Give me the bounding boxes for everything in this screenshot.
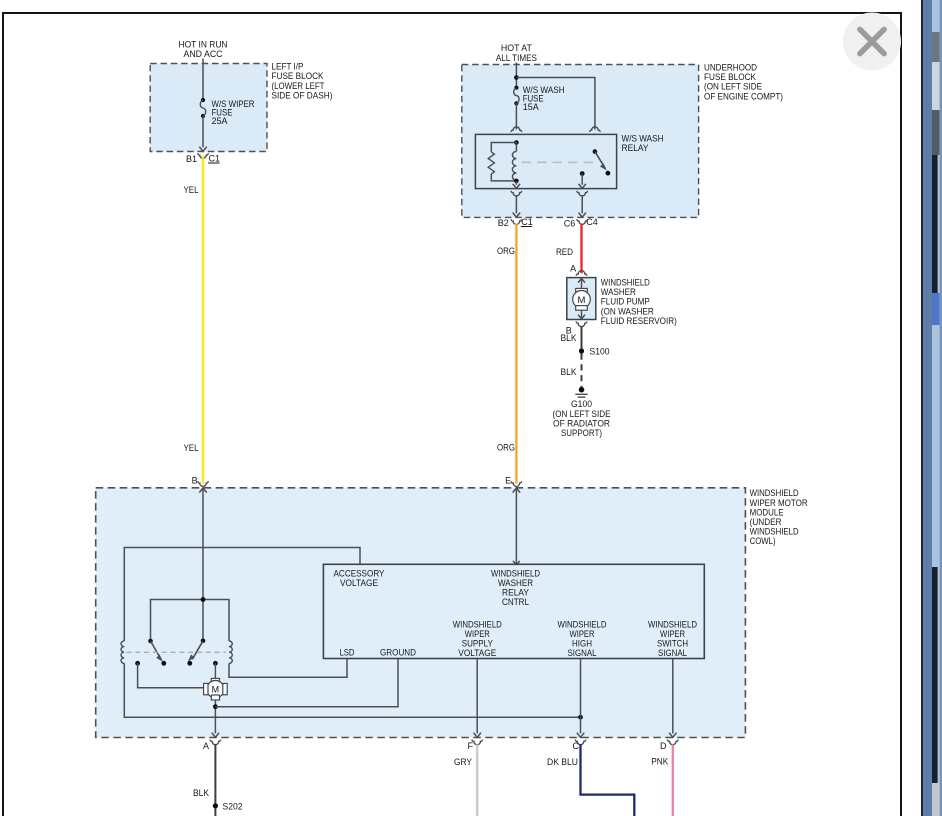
- connector cup module B: [198, 481, 208, 486]
- page sliver right edge: [921, 0, 942, 816]
- label UNDERHOOD FUSE BLOCK: [704, 63, 783, 102]
- wire high signal pin C: [580, 659, 582, 733]
- connector cup C1 left block: [198, 153, 208, 158]
- label GRY: [454, 757, 472, 767]
- arrow washer relay cntrl pin: [513, 561, 520, 565]
- pin B washer pump: [566, 325, 572, 335]
- svg-text:FLUID PUMP: FLUID PUMP: [601, 297, 650, 307]
- label WINDSHIELD WIPER HIGH SIGNAL: [558, 619, 607, 658]
- connector cup pump exit: [576, 321, 586, 326]
- svg-text:(ON LEFT SIDE: (ON LEFT SIDE: [553, 409, 611, 419]
- svg-text:RED: RED: [556, 247, 573, 257]
- connector cup C: [575, 740, 585, 745]
- svg-text:D: D: [660, 741, 667, 751]
- motor winding right coil: [229, 641, 232, 663]
- fuse block box UNDERHOOD: [462, 65, 699, 218]
- svg-text:BLK: BLK: [193, 788, 209, 798]
- svg-text:W/S WASH: W/S WASH: [622, 134, 664, 144]
- svg-text:WINDSHIELD: WINDSHIELD: [453, 619, 502, 629]
- svg-text:(UNDER: (UNDER: [750, 517, 782, 527]
- label DK BLU: [547, 757, 578, 767]
- svg-text:VOLTAGE: VOLTAGE: [458, 648, 496, 658]
- arrow into pump: [578, 278, 585, 282]
- pin A washer pump: [570, 263, 576, 273]
- svg-text:WASHER: WASHER: [498, 578, 533, 588]
- pin E module: [505, 476, 511, 486]
- wire relay coil pin to block edge: [515, 195, 517, 213]
- svg-text:A: A: [570, 263, 576, 273]
- wire E to washer relay cntrl pin: [515, 489, 517, 565]
- relay actuation dashed link: [522, 161, 597, 163]
- label WINDSHIELD WIPER SWITCH SIGNAL: [648, 619, 697, 658]
- arrow module exit F: [474, 733, 481, 738]
- label S100: [590, 347, 610, 357]
- arrow out of left fuse block: [199, 147, 206, 152]
- wire resistor bottom: [491, 174, 516, 181]
- pin B module: [192, 476, 198, 486]
- svg-text:WINDSHIELD: WINDSHIELD: [750, 488, 799, 498]
- arrow B2 exit: [513, 213, 520, 218]
- connector cup below relay switch: [577, 191, 587, 196]
- label W/S WASH RELAY: [622, 134, 664, 154]
- wire B to park switch: [202, 489, 204, 641]
- svg-text:SIGNAL: SIGNAL: [658, 648, 687, 658]
- svg-text:GROUND: GROUND: [380, 647, 416, 657]
- junction dot relay coil top: [514, 140, 519, 145]
- label YEL: [184, 185, 199, 195]
- wire YEL yellow: [202, 155, 204, 483]
- park switch contact dot: [135, 661, 140, 666]
- resistor relay suppression: [488, 152, 494, 174]
- pin F: [468, 741, 474, 751]
- relay switch arm end dot: [606, 171, 611, 176]
- wire accessory voltage to motor winding: [124, 548, 360, 642]
- svg-text:ORG: ORG: [497, 246, 515, 256]
- wire relay coil to box edge: [515, 181, 517, 185]
- svg-text:PNK: PNK: [651, 757, 668, 767]
- label WINDSHIELD WASHER RELAY CNTRL: [491, 568, 540, 607]
- arrow module exit C: [577, 733, 584, 738]
- svg-text:S202: S202: [223, 801, 243, 811]
- module box WINDSHIELD WIPER MOTOR MODULE: [96, 488, 746, 738]
- ground G100: [575, 387, 587, 397]
- svg-text:MODULE: MODULE: [750, 507, 784, 517]
- wire BLK dashed S100 to G100: [581, 354, 583, 388]
- wire fuse to connector C1: [202, 116, 204, 147]
- label S202: [223, 801, 243, 811]
- svg-text:OF RADIATOR: OF RADIATOR: [553, 418, 610, 428]
- label ORG: [497, 246, 515, 256]
- connector cup relay coil entry: [511, 127, 521, 132]
- arrow into module B: [199, 488, 206, 493]
- label BLK: [561, 333, 577, 343]
- motor M wiper: [204, 678, 228, 700]
- label BLK 3: [193, 788, 209, 798]
- svg-text:B: B: [192, 476, 198, 486]
- arrow pump exit: [578, 315, 585, 319]
- junction dot high signal: [578, 715, 583, 720]
- label ORG 2: [497, 443, 515, 453]
- relay coil winding: [512, 143, 516, 181]
- svg-text:BLK: BLK: [561, 333, 577, 343]
- washer pump box: [567, 278, 596, 320]
- arrow relay output exit: [579, 184, 586, 189]
- svg-text:VOLTAGE: VOLTAGE: [340, 578, 378, 588]
- wire relay switch pin to block edge: [581, 195, 583, 213]
- connector cup C6-C4: [577, 219, 587, 224]
- relay box W/S WASH RELAY: [475, 134, 616, 188]
- pin C4: [586, 217, 598, 227]
- svg-text:LEFT I/P: LEFT I/P: [272, 62, 304, 72]
- pin B1: [186, 154, 197, 164]
- wire coil top to resistor: [491, 143, 516, 152]
- svg-text:WASHER: WASHER: [601, 287, 636, 297]
- fuse W/S WASH 15A: [514, 86, 519, 106]
- svg-text:WINDSHIELD: WINDSHIELD: [558, 619, 607, 629]
- park switch arm 2 end dot: [187, 661, 192, 666]
- svg-text:WINDSHIELD: WINDSHIELD: [648, 619, 697, 629]
- park switch arm 2 pivot dot: [201, 639, 206, 644]
- svg-text:GRY: GRY: [454, 757, 472, 767]
- svg-text:M: M: [212, 685, 220, 695]
- park switch arm 1 pivot dot: [148, 639, 153, 644]
- wire DK BLU navy: [581, 744, 635, 816]
- svg-text:SUPPLY: SUPPLY: [462, 639, 493, 649]
- svg-text:YEL: YEL: [184, 443, 199, 453]
- wire switch signal pin D: [672, 659, 674, 733]
- wire feed to motor: [214, 663, 216, 678]
- svg-text:A: A: [203, 741, 209, 751]
- svg-text:UNDERHOOD: UNDERHOOD: [704, 63, 757, 73]
- relay switch pivot dot: [593, 149, 598, 154]
- svg-text:15A: 15A: [523, 102, 539, 112]
- svg-text:(LOWER LEFT: (LOWER LEFT: [272, 81, 325, 91]
- junction dot B at bridge: [201, 597, 206, 602]
- label WINDSHIELD WIPER MOTOR MODULE: [750, 488, 808, 546]
- arrow C6 exit: [579, 213, 586, 218]
- label WINDSHIELD WIPER SUPPLY VOLTAGE: [453, 619, 502, 658]
- svg-text:25A: 25A: [212, 116, 228, 126]
- connector cup module E: [511, 481, 521, 486]
- wire hot feed into left fuse block: [202, 59, 204, 101]
- wire BLK to S202: [214, 744, 216, 816]
- svg-text:RELAY: RELAY: [502, 588, 529, 598]
- label LEFT I/P FUSE BLOCK: [272, 62, 333, 101]
- svg-text:FUSE BLOCK: FUSE BLOCK: [704, 72, 756, 82]
- svg-text:COWL): COWL): [750, 536, 776, 546]
- junction dot feed split: [514, 75, 519, 80]
- svg-text:C4: C4: [586, 217, 598, 227]
- wire branch to relay switch: [516, 78, 595, 130]
- arrow module exit D: [669, 733, 676, 738]
- park switch arm 2: [189, 641, 203, 661]
- label YEL 2: [184, 443, 199, 453]
- motor M washer pump: [573, 288, 591, 310]
- pin B2: [498, 218, 509, 228]
- label W/S WIPER FUSE 25A: [212, 99, 255, 126]
- svg-text:WINDSHIELD: WINDSHIELD: [601, 277, 650, 287]
- svg-text:ACCESSORY: ACCESSORY: [334, 568, 385, 578]
- svg-text:(ON LEFT SIDE: (ON LEFT SIDE: [704, 82, 762, 92]
- pin A: [203, 741, 209, 751]
- svg-text:B2: B2: [498, 218, 509, 228]
- wire BLK pump to S100: [581, 326, 583, 351]
- svg-text:F: F: [468, 741, 474, 751]
- label GROUND: [380, 647, 416, 657]
- svg-text:FLUID RESERVOIR): FLUID RESERVOIR): [601, 316, 677, 326]
- wire left coil to high signal junction: [124, 663, 580, 717]
- svg-text:B1: B1: [186, 154, 197, 164]
- svg-text:HIGH: HIGH: [572, 639, 592, 649]
- arrow into relay switch pin: [591, 135, 598, 140]
- module control box: [323, 564, 704, 658]
- junction dot motor ground: [213, 704, 218, 709]
- park switch arm 1 end dot: [161, 661, 166, 666]
- connector cup relay switch entry: [590, 127, 600, 132]
- fuse block box LEFT I/P: [150, 64, 267, 152]
- label WINDSHIELD WASHER FLUID PUMP: [601, 277, 677, 326]
- label W/S WASH FUSE 15A: [523, 85, 565, 112]
- svg-text:DK BLU: DK BLU: [547, 757, 578, 767]
- wire park switch bridge: [151, 600, 230, 642]
- svg-text:LSD: LSD: [340, 647, 355, 657]
- svg-text:OF ENGINE COMPT): OF ENGINE COMPT): [704, 91, 783, 101]
- wire PNK pink: [672, 744, 674, 816]
- wire motor to ground junction: [214, 700, 216, 733]
- splice S100: [579, 348, 584, 353]
- label LSD: [340, 647, 355, 657]
- svg-text:SUPPORT): SUPPORT): [561, 428, 602, 438]
- close button: [843, 13, 901, 71]
- connector cup D: [668, 740, 678, 745]
- wire RED red: [580, 224, 582, 274]
- svg-text:WIPER MOTOR: WIPER MOTOR: [750, 498, 808, 508]
- svg-text:M: M: [578, 295, 586, 306]
- svg-text:SIGNAL: SIGNAL: [568, 648, 597, 658]
- pin C6: [564, 219, 576, 229]
- svg-text:WINDSHIELD: WINDSHIELD: [491, 568, 540, 578]
- svg-text:ORG: ORG: [497, 443, 515, 453]
- wire supply voltage pin F: [476, 659, 478, 733]
- svg-text:RELAY: RELAY: [622, 143, 649, 153]
- junction dot relay coil bottom: [514, 179, 519, 184]
- wire fuse to relay coil: [515, 103, 517, 129]
- svg-text:S100: S100: [590, 347, 610, 357]
- fuse W/S WIPER 25A: [200, 98, 205, 118]
- svg-text:ALL TIMES: ALL TIMES: [496, 53, 537, 63]
- svg-text:AND ACC: AND ACC: [184, 49, 223, 59]
- svg-text:C: C: [573, 741, 580, 751]
- splice S202: [213, 803, 218, 808]
- svg-text:FUSE BLOCK: FUSE BLOCK: [272, 71, 324, 81]
- motor winding left coil: [121, 641, 124, 663]
- pin D: [660, 741, 667, 751]
- connector cup A: [210, 740, 220, 745]
- svg-text:YEL: YEL: [184, 185, 199, 195]
- label ACCESSORY VOLTAGE: [334, 568, 385, 588]
- svg-text:C1: C1: [209, 153, 221, 163]
- label PNK: [651, 757, 668, 767]
- pin C1 right block underlined: [521, 217, 533, 227]
- label BLK 2: [561, 367, 577, 377]
- svg-text:C6: C6: [564, 219, 576, 229]
- wiper motor feed dot: [213, 661, 218, 666]
- wire to GROUND pin: [215, 659, 398, 707]
- svg-text:E: E: [505, 476, 511, 486]
- svg-text:HOT IN RUN: HOT IN RUN: [179, 39, 228, 49]
- wire relay output to box edge: [581, 174, 583, 185]
- wire right coil to LSD pin: [229, 659, 347, 677]
- connector cup F: [472, 740, 482, 745]
- svg-text:HOT AT: HOT AT: [501, 43, 532, 53]
- svg-text:WIPER: WIPER: [660, 629, 685, 639]
- relay switch arm: [595, 152, 606, 170]
- relay switch output dot: [580, 171, 585, 176]
- pin C: [573, 741, 580, 751]
- label G100: [553, 399, 611, 438]
- svg-text:WIPER: WIPER: [465, 629, 490, 639]
- park switch arm 1: [151, 641, 163, 661]
- label RED: [556, 247, 573, 257]
- wire ORG orange: [515, 224, 517, 484]
- arrow relay coil exit: [513, 184, 520, 189]
- svg-text:WINDSHIELD: WINDSHIELD: [750, 527, 799, 537]
- wire pump bottom lead: [581, 310, 583, 319]
- arrow module exit A: [212, 733, 219, 738]
- svg-text:CNTRL: CNTRL: [502, 597, 529, 607]
- node HOT AT ALL TIMES: [496, 43, 537, 63]
- pin C1 underlined: [208, 153, 220, 163]
- svg-text:SIDE OF DASH): SIDE OF DASH): [272, 90, 333, 100]
- wire GRY gray: [476, 744, 478, 816]
- connector cup below relay coil: [511, 191, 521, 196]
- wire pump top lead: [581, 278, 583, 289]
- svg-text:G100: G100: [571, 399, 592, 409]
- svg-text:BLK: BLK: [561, 367, 577, 377]
- connector cup B2-C1: [511, 219, 521, 224]
- arrow into relay coil pin: [513, 135, 520, 140]
- node HOT IN RUN AND ACC: [179, 39, 228, 59]
- wire contact to motor brush: [138, 663, 205, 687]
- connector cup pump entry: [576, 271, 586, 276]
- svg-text:WIPER: WIPER: [570, 629, 595, 639]
- svg-text:SWITCH: SWITCH: [657, 639, 688, 649]
- arrow into module E: [513, 488, 520, 493]
- svg-text:(ON WASHER: (ON WASHER: [601, 306, 654, 316]
- wire hot feed into underhood block: [515, 63, 517, 88]
- svg-text:C1: C1: [521, 217, 533, 227]
- park switch dashed link: [127, 651, 227, 653]
